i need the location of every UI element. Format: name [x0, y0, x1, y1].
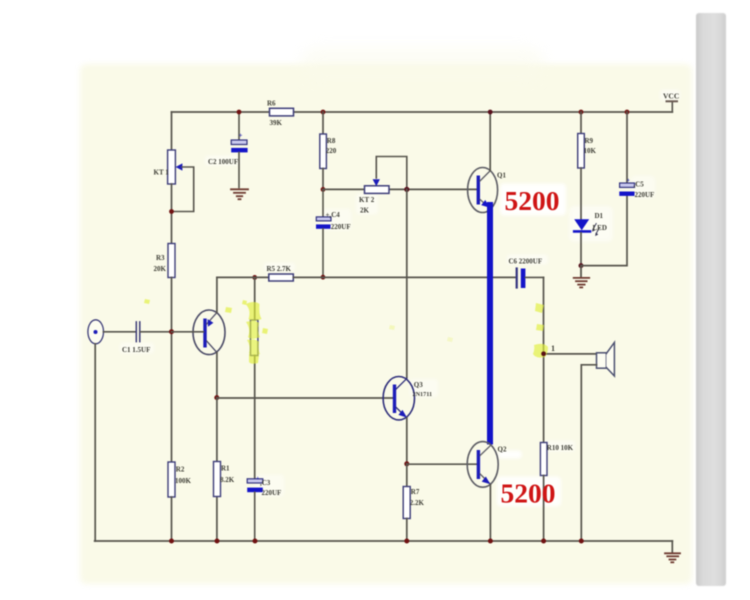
potentiometer KT2 — [359, 157, 407, 215]
svg-text:R7: R7 — [411, 488, 420, 496]
wire R10 column — [543, 354, 545, 443]
wire R10 to rail — [543, 476, 545, 542]
wire left column upper — [171, 112, 173, 150]
resistor R9 — [578, 134, 597, 169]
wire R1 column — [216, 398, 218, 541]
node R8 top junction — [321, 110, 326, 115]
node Q1 collector junction — [488, 110, 493, 115]
svg-text:2K: 2K — [360, 207, 370, 215]
wire R9 top — [580, 112, 582, 134]
wire input down — [94, 344, 96, 541]
resistor R10 — [540, 443, 573, 476]
svg-text:Q3: Q3 — [414, 381, 423, 389]
svg-text:220UF: 220UF — [331, 223, 351, 231]
node KT1 wiper junction — [169, 209, 174, 214]
wire mid row right — [293, 276, 515, 278]
svg-text:100K: 100K — [175, 477, 192, 485]
wire Q4 collector down — [216, 353, 218, 398]
transistor Q1 — [468, 168, 507, 213]
svg-text:+: + — [627, 178, 631, 184]
ground D1 — [574, 266, 590, 288]
ground main — [665, 541, 680, 562]
svg-text:R8: R8 — [327, 137, 336, 145]
capacitor C4 — [316, 189, 351, 276]
wire C1 junction to Q4 base — [172, 331, 204, 333]
wire Q2 emitter down — [489, 484, 491, 541]
resistor R3 — [154, 244, 176, 278]
svg-text:10K: 10K — [584, 147, 597, 155]
transistor Q4 — [193, 310, 225, 355]
wire C6 corner down to speaker node — [543, 277, 545, 353]
svg-text:R1: R1 — [221, 465, 230, 473]
ground C2 — [231, 189, 248, 199]
node speaker junction — [541, 344, 555, 356]
wire KT1 to junction — [171, 184, 173, 244]
svg-text:5200: 5200 — [501, 478, 556, 509]
node R5 left junction — [252, 275, 257, 280]
transistor Q3 — [383, 377, 432, 420]
svg-text:20K: 20K — [154, 265, 167, 273]
wire C5 bottom link — [581, 196, 627, 266]
capacitor C1 — [122, 322, 172, 354]
label 5200 upper — [505, 185, 560, 216]
input connector J1 — [88, 320, 104, 344]
node Q4 collector junction — [214, 395, 219, 400]
wire Q3 collector column — [406, 189, 408, 377]
svg-text:R10 10K: R10 10K — [547, 444, 574, 452]
node C1 junction — [169, 329, 174, 334]
resistor R6 — [267, 100, 294, 128]
wire to speaker — [544, 353, 597, 355]
svg-text:R3: R3 — [156, 254, 165, 262]
node Q3 emitter junction — [404, 461, 409, 466]
diode D1 LED — [574, 212, 607, 236]
svg-text:KT 1: KT 1 — [154, 169, 170, 177]
svg-text:Q1: Q1 — [497, 172, 506, 180]
node R8 bottom junction — [321, 187, 326, 192]
svg-text:220UF: 220UF — [262, 489, 282, 497]
wire R3 to C1 junction — [171, 278, 173, 463]
wire Q3 base row — [217, 397, 393, 399]
wire input to C1 — [104, 331, 136, 333]
wire Q4 emitter up — [216, 277, 218, 312]
svg-text:C2 100UF: C2 100UF — [208, 158, 238, 166]
resistor R8 — [320, 134, 337, 169]
resistor R4 — [251, 320, 258, 356]
svg-text:+,C4: +,C4 — [326, 211, 341, 219]
resistor R1 — [214, 462, 235, 497]
svg-text:+: + — [239, 132, 243, 140]
svg-text:220: 220 — [326, 147, 337, 155]
wire bottom rail — [95, 540, 673, 542]
node speaker junction repaint — [541, 352, 546, 357]
capacitor C6 — [509, 258, 544, 289]
wire top rail left segment — [172, 111, 270, 113]
wire mid row left — [217, 276, 269, 278]
svg-text:,C5: ,C5 — [634, 181, 645, 189]
svg-text:5200: 5200 — [505, 185, 560, 216]
svg-text:,C3: ,C3 — [260, 479, 271, 487]
label 5200 lower — [501, 478, 556, 509]
wire Q1 collector up — [489, 112, 491, 171]
svg-text:220UF: 220UF — [635, 191, 655, 199]
wire Q2 base row — [407, 463, 477, 465]
svg-text:39K: 39K — [270, 119, 283, 127]
svg-text:D1: D1 — [595, 212, 604, 220]
wire R8 top — [322, 112, 324, 134]
node KT2 wiper junction — [404, 187, 409, 192]
wire R4 to C3 — [254, 356, 256, 479]
wire speaker return — [581, 365, 596, 541]
resistor R7 — [403, 464, 424, 541]
speaker LS — [597, 342, 615, 376]
wire base row to Q1 — [323, 188, 477, 190]
capacitor C2 — [208, 112, 248, 188]
wire R9 to D1 — [580, 168, 582, 219]
svg-text:C1 1.5UF: C1 1.5UF — [122, 346, 150, 354]
VCC — [663, 92, 679, 113]
node C2 top junction — [237, 110, 242, 115]
svg-text:R2: R2 — [176, 466, 185, 474]
node R9 top junction — [579, 110, 584, 115]
capacitor C5 — [619, 112, 654, 199]
wire Q3 emitter down — [406, 418, 408, 464]
wire R4 column — [254, 277, 256, 320]
svg-text:8.2K: 8.2K — [220, 476, 235, 484]
wire top rail right segment — [294, 111, 673, 113]
potentiometer KT1 — [154, 150, 194, 212]
node R5 right junction — [321, 275, 326, 280]
svg-text:2.2K: 2.2K — [410, 499, 425, 507]
highlighter marks — [144, 299, 548, 364]
wire R2 to bottom rail — [171, 497, 173, 541]
svg-text:C6 2200UF: C6 2200UF — [509, 258, 543, 266]
svg-text:+: + — [256, 476, 260, 482]
svg-text:R9: R9 — [585, 137, 594, 145]
svg-text:VCC: VCC — [663, 92, 679, 101]
svg-text:LED: LED — [593, 224, 607, 232]
svg-text:R5 2.7K: R5 2.7K — [267, 265, 292, 273]
svg-text:2N1711: 2N1711 — [413, 391, 433, 398]
resistor R2 — [168, 462, 192, 497]
wire R8 bottom — [322, 169, 324, 190]
resistor R5 — [267, 265, 294, 281]
node C5 top junction — [625, 110, 630, 115]
node D1 ground junction — [579, 263, 584, 268]
white smudges — [120, 90, 680, 507]
node rail junctions — [169, 539, 584, 544]
wire thick blue emitter bus — [487, 205, 493, 442]
svg-text:R6: R6 — [267, 100, 276, 108]
capacitor C3 — [247, 476, 281, 541]
svg-text:Q2: Q2 — [498, 446, 507, 454]
wire D1 to ground node — [580, 233, 582, 266]
svg-text:1: 1 — [551, 344, 555, 353]
transistor Q2 — [467, 442, 507, 488]
svg-text:KT 2: KT 2 — [359, 196, 375, 204]
